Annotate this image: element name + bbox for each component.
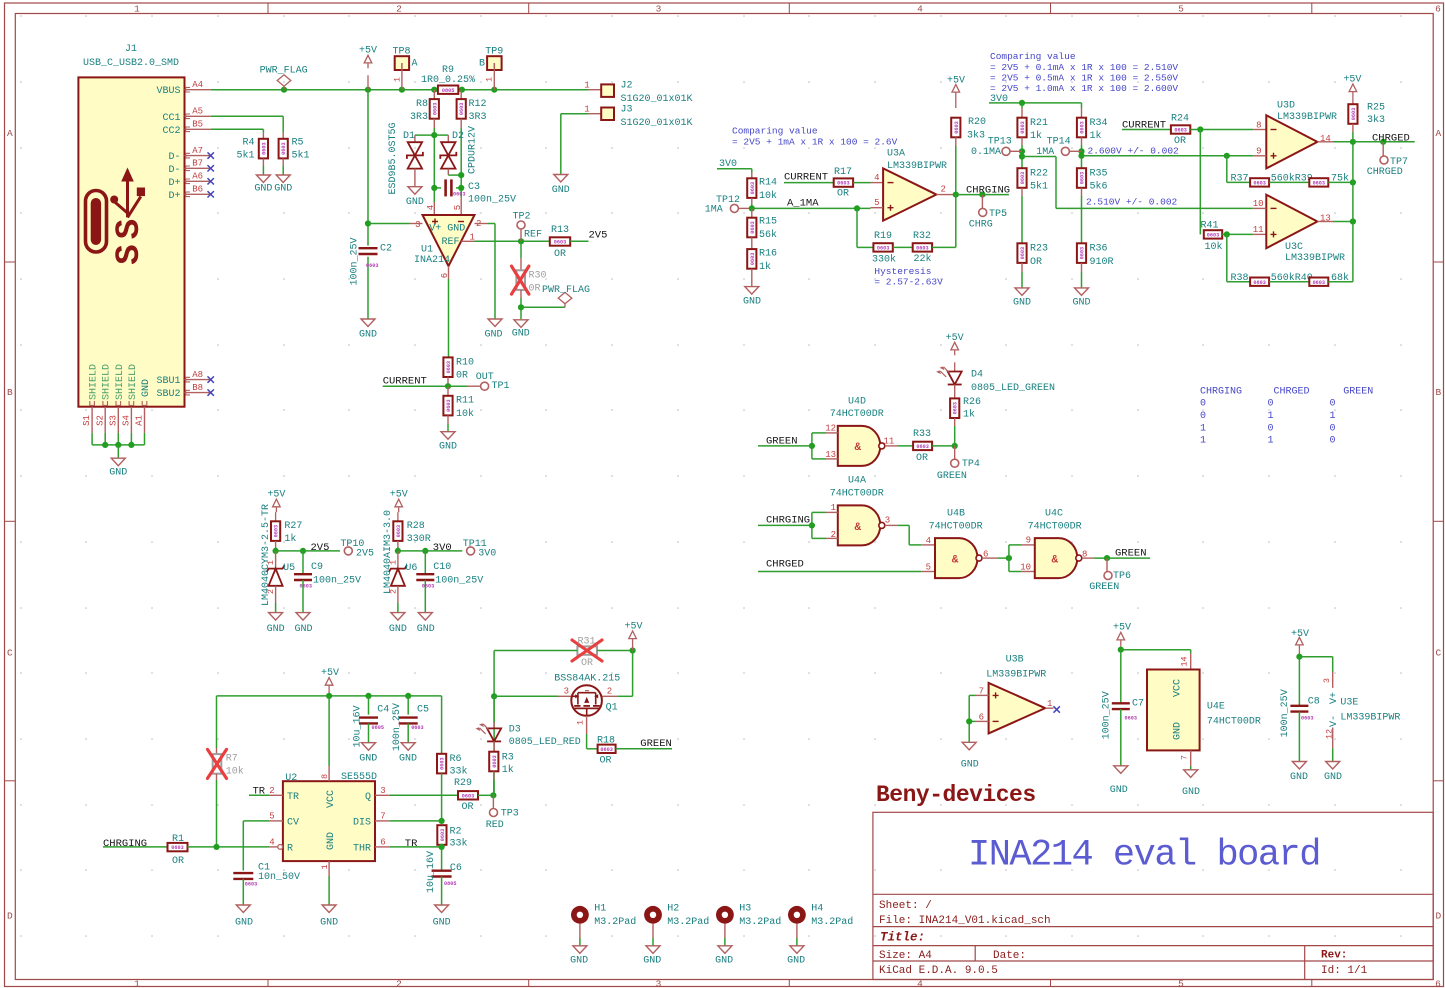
capacitor 100n [294, 551, 361, 635]
svg-text:1: 1 [134, 4, 140, 15]
svg-text:0R: 0R [456, 371, 468, 382]
shunt reference U5 [266, 551, 295, 635]
svg-text:14: 14 [1320, 134, 1331, 144]
resistor R8 [410, 90, 439, 128]
svg-text:R37: R37 [1230, 174, 1248, 185]
gate U4E 74HCT00DR power unit [1147, 653, 1261, 797]
svg-text:9: 9 [1026, 536, 1031, 546]
svg-text:12: 12 [825, 423, 836, 433]
resistor R4 [211, 129, 273, 194]
resistor R11 [439, 386, 474, 452]
svg-text:TP14: TP14 [1047, 137, 1071, 148]
NAND gate U4B 74HCT00DR [929, 509, 1012, 579]
svg-text:A5: A5 [192, 107, 203, 117]
svg-text:1: 1 [1200, 436, 1206, 447]
svg-text:D2: D2 [452, 131, 464, 142]
svg-text:0: 0 [1200, 411, 1206, 422]
wire VBUS net [211, 87, 589, 93]
ground [1114, 766, 1128, 774]
svg-text:100n_25V: 100n_25V [392, 703, 403, 751]
svg-text:U4E: U4E [1207, 702, 1225, 713]
net 3V0 rail [989, 94, 1082, 108]
test point TP4 GREEN [937, 446, 980, 482]
svg-text:GND: GND [1072, 297, 1090, 308]
svg-text:+5V: +5V [624, 621, 642, 632]
svg-text:33k: 33k [450, 837, 468, 849]
svg-text:GND: GND [320, 918, 338, 929]
svg-text:S: S [111, 244, 149, 264]
wire wired-AND output CHRGED [1350, 132, 1415, 281]
svg-text:R10: R10 [456, 357, 474, 368]
svg-text:CHRGING: CHRGING [966, 185, 1010, 197]
svg-text:C10: C10 [433, 562, 451, 573]
test point TP8 [392, 46, 417, 89]
svg-text:D3: D3 [509, 725, 521, 736]
svg-text:0603: 0603 [411, 725, 423, 731]
test point TP7 CHRGED [1367, 142, 1408, 178]
svg-text:M3.2Pad: M3.2Pad [739, 916, 781, 928]
svg-text:2: 2 [941, 185, 946, 195]
svg-text:1k: 1k [963, 408, 975, 420]
svg-text:0603: 0603 [440, 829, 446, 841]
resistor R6 [437, 696, 468, 824]
svg-text:GND: GND [1290, 772, 1308, 783]
svg-text:+5V: +5V [321, 668, 339, 679]
svg-text:GND: GND [433, 918, 451, 929]
resistor R18 [597, 735, 672, 766]
resistor R12 [457, 90, 487, 128]
wire GND pin1 [320, 876, 338, 929]
power +5V [1291, 629, 1309, 657]
svg-text:REF: REF [441, 237, 459, 248]
svg-text:LM339BIPWR: LM339BIPWR [887, 161, 947, 172]
svg-text:GND: GND [109, 468, 127, 479]
svg-text:4: 4 [917, 4, 923, 15]
svg-text:6: 6 [380, 837, 385, 847]
svg-text:A8: A8 [192, 370, 203, 380]
svg-text:GND: GND [743, 296, 761, 307]
svg-text:V+ GND: V+ GND [429, 224, 465, 235]
svg-text:Hysteresis: Hysteresis [874, 266, 931, 277]
svg-text:1k: 1k [1030, 130, 1042, 142]
svg-text:0603: 0603 [396, 525, 402, 537]
wire CHRGING net [953, 185, 1010, 198]
svg-text:5: 5 [874, 198, 879, 208]
resistor R35 [1077, 168, 1108, 243]
svg-text:OR: OR [916, 453, 928, 464]
svg-text:0: 0 [1330, 423, 1336, 434]
capacitor C6 [426, 847, 462, 929]
svg-text:OR: OR [837, 188, 849, 199]
svg-text:R3: R3 [502, 753, 514, 764]
svg-text:0603: 0603 [953, 402, 959, 414]
svg-text:1: 1 [1268, 411, 1274, 422]
svg-text:SHIELD: SHIELD [89, 364, 100, 400]
ground [514, 320, 528, 328]
svg-text:0603: 0603 [600, 747, 612, 753]
svg-text:0: 0 [1330, 436, 1336, 447]
svg-text:1: 1 [1200, 423, 1206, 434]
svg-text:GND: GND [326, 832, 337, 850]
wire TR input [249, 786, 269, 798]
no-connect [1054, 706, 1060, 712]
resistor R24 [1171, 114, 1266, 148]
wire to U3D pin9 [1082, 155, 1254, 157]
svg-text:0603: 0603 [1313, 181, 1325, 187]
wire A_1MA net [749, 198, 871, 212]
resistor R10 [443, 357, 474, 386]
wire Q output pin3 [390, 794, 458, 796]
wire +5V node to U4E VCC [1118, 647, 1191, 654]
svg-text:DIS: DIS [353, 817, 371, 828]
LED D3 0805_LED_RED [476, 696, 581, 751]
svg-text:TP8: TP8 [392, 46, 410, 57]
svg-text:10: 10 [1020, 563, 1031, 573]
wire R29 node up to R31 row [493, 651, 495, 796]
svg-text:+5V: +5V [1291, 629, 1309, 640]
LED D4 0805_LED_GREEN [936, 333, 1055, 398]
resistor R28 [393, 521, 430, 551]
power +5V [1113, 623, 1131, 650]
svg-text:8: 8 [1256, 121, 1261, 131]
svg-text:Q: Q [365, 792, 371, 803]
mounting hole H2 M3.2Pad [643, 904, 709, 967]
svg-text:+5V: +5V [267, 489, 285, 500]
svg-text:U3D: U3D [1277, 101, 1295, 112]
ground [718, 946, 732, 954]
svg-text:7: 7 [380, 811, 385, 821]
svg-text:GREEN: GREEN [1115, 547, 1147, 559]
svg-text:+5V: +5V [390, 489, 408, 500]
svg-text:B7: B7 [192, 159, 203, 169]
wire U4B out to U4C inputs [1009, 536, 1035, 573]
svg-text:D+: D+ [168, 191, 180, 202]
svg-text:R19: R19 [874, 231, 892, 242]
svg-text:TR: TR [405, 838, 418, 850]
svg-text:File: INA214_V01.kicad_sch: File: INA214_V01.kicad_sch [879, 915, 1051, 927]
svg-text:4: 4 [269, 837, 274, 847]
svg-text:VCC: VCC [1173, 679, 1184, 697]
svg-text:C6: C6 [450, 863, 462, 874]
resistor R33 [913, 429, 958, 464]
svg-text:TR: TR [287, 792, 299, 803]
svg-text:2: 2 [607, 686, 612, 696]
wire GREEN output net [1094, 547, 1150, 561]
svg-text:GND: GND [417, 624, 435, 635]
svg-text:= 2.57-2.63V: = 2.57-2.63V [874, 277, 943, 288]
ground [236, 905, 250, 913]
svg-text:R8: R8 [416, 99, 428, 110]
svg-text:Beny-devices: Beny-devices [876, 782, 1036, 808]
wire GREEN input [758, 435, 812, 447]
svg-text:GND: GND [787, 956, 805, 967]
svg-text:GND: GND [274, 183, 292, 194]
svg-text:LM339BIPWR: LM339BIPWR [1277, 112, 1337, 123]
svg-text:0R: 0R [529, 284, 541, 295]
svg-text:GND: GND [359, 330, 377, 341]
svg-text:0805_LED_RED: 0805_LED_RED [509, 737, 581, 748]
svg-text:R35: R35 [1090, 169, 1108, 180]
svg-text:5k1: 5k1 [292, 150, 310, 162]
svg-text:= 2V5 + 0.5mA x 1R x 100 = 2.5: = 2V5 + 0.5mA x 1R x 100 = 2.550V [990, 72, 1178, 83]
svg-text:GREEN: GREEN [937, 471, 967, 482]
svg-text:5k1: 5k1 [236, 150, 254, 162]
svg-text:GREEN: GREEN [640, 738, 672, 750]
svg-text:0603: 0603 [462, 793, 474, 799]
svg-text:M3.2Pad: M3.2Pad [667, 916, 709, 928]
svg-text:CHRGED: CHRGED [766, 559, 804, 571]
power +5V and resistor R20 [947, 76, 986, 195]
svg-text:A: A [412, 59, 418, 70]
svg-text:= 2V5 + 0.1mA x 1R x 100 = 2.5: = 2V5 + 0.1mA x 1R x 100 = 2.510V [990, 62, 1178, 73]
svg-text:1: 1 [485, 77, 495, 82]
svg-text:Size: A4: Size: A4 [879, 950, 932, 962]
svg-text:H3: H3 [739, 904, 751, 915]
svg-text:VCC: VCC [326, 790, 337, 808]
svg-text:B6: B6 [192, 185, 203, 195]
svg-text:1k: 1k [1090, 130, 1102, 142]
svg-text:3: 3 [380, 786, 385, 796]
svg-text:GND: GND [1013, 297, 1031, 308]
svg-text:0603: 0603 [750, 182, 756, 194]
svg-text:0805_LED_GREEN: 0805_LED_GREEN [971, 383, 1055, 394]
svg-text:5k1: 5k1 [1030, 181, 1048, 193]
svg-text:C: C [1435, 647, 1441, 658]
svg-text:OR: OR [599, 756, 611, 767]
svg-text:A: A [1435, 128, 1441, 139]
svg-text:U4A: U4A [848, 476, 866, 487]
svg-text:Rev:: Rev: [1321, 950, 1347, 962]
ground [361, 319, 375, 327]
connector J1 USB_C_USB2.0_SMD [78, 44, 214, 479]
wire shield bus to ground [91, 433, 93, 445]
svg-text:D+: D+ [168, 178, 180, 189]
svg-text:4: 4 [874, 173, 879, 183]
svg-text:+5V: +5V [1113, 623, 1131, 634]
svg-text:KiCad E.D.A. 9.0.5: KiCad E.D.A. 9.0.5 [879, 965, 998, 977]
svg-text:GND: GND [294, 624, 312, 635]
ground [1184, 770, 1198, 778]
svg-text:&: & [854, 522, 861, 534]
svg-text:100n_25V: 100n_25V [313, 575, 361, 586]
svg-text:5: 5 [926, 563, 931, 573]
wire R8 to C3 node [433, 128, 435, 202]
svg-text:33k: 33k [450, 766, 468, 778]
svg-text:PWR_FLAG: PWR_FLAG [260, 66, 308, 77]
svg-text:OR: OR [1174, 136, 1186, 147]
svg-text:CPDUR12V: CPDUR12V [468, 126, 479, 174]
svg-text:Date:: Date: [993, 950, 1026, 962]
svg-text:R7: R7 [226, 754, 238, 765]
svg-text:D: D [7, 910, 13, 921]
svg-text:S4: S4 [122, 415, 132, 426]
svg-text:22k: 22k [913, 253, 931, 265]
resistor R34 [1077, 108, 1108, 168]
svg-text:10k: 10k [456, 408, 474, 420]
svg-text:Title:: Title: [880, 930, 925, 944]
svg-text:GND: GND [1110, 785, 1128, 796]
svg-text:1: 1 [1047, 699, 1052, 709]
svg-text:R15: R15 [759, 217, 777, 228]
svg-text:R33: R33 [913, 429, 931, 440]
ground [573, 946, 587, 954]
svg-text:1: 1 [576, 720, 586, 725]
mounting hole H4 M3.2Pad [787, 904, 853, 967]
ground [435, 905, 449, 913]
svg-text:OR: OR [461, 802, 473, 813]
test point TP9 [479, 46, 503, 89]
svg-text:GND: GND [141, 379, 152, 397]
wire U4A out pin3 to U4B pin4 [885, 515, 935, 546]
svg-text:S: S [111, 219, 149, 239]
svg-text:0603: 0603 [422, 583, 434, 589]
svg-text:1MA: 1MA [705, 204, 723, 215]
svg-text:R21: R21 [1030, 118, 1048, 129]
svg-text:0805: 0805 [372, 725, 384, 731]
svg-text:V-: V- [1329, 715, 1340, 727]
svg-text:0: 0 [1268, 423, 1274, 434]
svg-text:GND: GND [254, 183, 272, 194]
capacitor C5 [392, 696, 429, 765]
svg-text:GND: GND [1173, 722, 1184, 740]
svg-text:= 2V5 + 1mA x 1R x 100 = 2.6V: = 2V5 + 1mA x 1R x 100 = 2.6V [732, 136, 898, 147]
capacitor C8 [1280, 654, 1320, 783]
svg-text:GND: GND [399, 754, 417, 765]
resistor R14 [747, 173, 777, 209]
svg-text:TP6: TP6 [1113, 571, 1131, 582]
svg-text:H1: H1 [594, 904, 606, 915]
svg-text:GND: GND [512, 328, 530, 339]
svg-text:PWR_FLAG: PWR_FLAG [542, 285, 590, 296]
power flag PWR_FLAG at R30 [512, 285, 590, 339]
svg-text:100n_25V: 100n_25V [435, 575, 483, 586]
svg-text:74HCT00DR: 74HCT00DR [1207, 717, 1261, 728]
ground [790, 946, 804, 954]
svg-text:TP1: TP1 [492, 381, 510, 392]
svg-text:100n_25V: 100n_25V [1101, 691, 1112, 739]
svg-text:0603: 0603 [1125, 716, 1137, 722]
svg-text:S3: S3 [108, 415, 118, 426]
svg-text:1: 1 [134, 979, 140, 988]
wire CHRGED input to U4B pin5 [758, 559, 935, 573]
svg-text:0603: 0603 [300, 583, 312, 589]
svg-text:B8: B8 [192, 383, 203, 393]
svg-text:S1G20_01x01K: S1G20_01x01K [621, 118, 693, 129]
wire gate node [491, 686, 571, 699]
svg-text:R6: R6 [450, 754, 462, 765]
svg-text:CC2: CC2 [162, 126, 180, 137]
svg-text:CURRENT: CURRENT [784, 171, 828, 183]
op-amp U3B LM339BIPWR spare [961, 655, 1060, 771]
svg-text:Q1: Q1 [606, 702, 618, 713]
svg-text:0603: 0603 [1020, 247, 1026, 259]
svg-text:0603: 0603 [750, 253, 756, 265]
svg-text:5: 5 [1178, 4, 1184, 15]
svg-text:3: 3 [564, 686, 569, 696]
note comparing value right [990, 51, 1178, 94]
ground [441, 432, 455, 440]
svg-text:10k: 10k [226, 765, 244, 777]
svg-text:11: 11 [1253, 225, 1264, 235]
svg-text:U5: U5 [283, 563, 295, 574]
svg-text:C3: C3 [468, 182, 480, 193]
svg-text:74HCT00DR: 74HCT00DR [830, 409, 884, 420]
wire R24 node down to R41 [1199, 130, 1201, 235]
svg-text:THR: THR [353, 843, 371, 854]
wire THR pin6 TR net [390, 838, 445, 850]
power flag PWR_FLAG [260, 66, 308, 90]
svg-text:3: 3 [415, 220, 420, 230]
svg-text:0: 0 [1200, 399, 1206, 410]
svg-text:0603: 0603 [281, 142, 287, 154]
svg-text:0603: 0603 [554, 240, 566, 246]
svg-text:OR: OR [172, 856, 184, 867]
resistor R27 [271, 521, 302, 551]
test point TP12 1MA [705, 195, 752, 215]
svg-text:TP5: TP5 [989, 209, 1007, 220]
NAND gate U4C 74HCT00DR [1028, 509, 1095, 579]
test point TP6 GREEN [1089, 558, 1131, 593]
svg-text:S2: S2 [95, 415, 105, 426]
TVS diode D2 CPDUR12V [434, 126, 478, 178]
capacitor C3 [431, 179, 516, 205]
svg-text:TP3: TP3 [501, 809, 519, 820]
test point TP10 2V5 [340, 539, 374, 559]
svg-text:0805: 0805 [442, 88, 454, 94]
svg-text:R1: R1 [172, 834, 184, 845]
mounting hole H1 M3.2Pad [570, 904, 636, 967]
svg-text:1k: 1k [502, 764, 514, 776]
svg-text:0603: 0603 [274, 525, 280, 537]
feedback R38 R40 [1227, 234, 1353, 286]
op-amp U3A LM339BIPWR [871, 149, 956, 221]
svg-text:1: 1 [392, 77, 402, 82]
svg-text:3k3: 3k3 [1367, 114, 1385, 126]
svg-text:10u_16V: 10u_16V [426, 851, 437, 893]
svg-text:SE555D: SE555D [341, 772, 377, 783]
svg-text:U4B: U4B [947, 509, 965, 520]
svg-text:R25: R25 [1367, 103, 1385, 114]
wire REF output pin1 [461, 238, 549, 244]
capacitor C4 [353, 696, 390, 765]
svg-text:R27: R27 [284, 521, 302, 532]
ground [418, 613, 432, 621]
svg-text:56k: 56k [759, 229, 777, 241]
svg-text:Sheet: /: Sheet: / [879, 900, 932, 912]
svg-text:S1: S1 [82, 415, 92, 426]
svg-text:10u_16V: 10u_16V [353, 705, 364, 747]
svg-text:0603: 0603 [432, 103, 438, 115]
svg-text:0603: 0603 [1174, 128, 1186, 134]
wire U1 pin3 supply [368, 223, 423, 225]
svg-text:GND: GND [439, 441, 457, 452]
svg-text:A7: A7 [192, 146, 203, 156]
USB SS logo [86, 191, 107, 253]
ground [401, 743, 415, 751]
svg-text:J1: J1 [125, 44, 137, 55]
svg-text:2.510V +/- 0.002: 2.510V +/- 0.002 [1086, 196, 1178, 207]
svg-text:A4: A4 [192, 80, 203, 90]
svg-text:TP4: TP4 [962, 459, 980, 470]
svg-text:R2: R2 [450, 826, 462, 837]
svg-text:B: B [7, 387, 13, 398]
svg-text:R12: R12 [469, 99, 487, 110]
svg-text:560kR40: 560kR40 [1271, 272, 1313, 284]
svg-text:&: & [1051, 555, 1058, 567]
svg-text:R26: R26 [963, 397, 981, 408]
test point TP11 3V0 [463, 539, 497, 559]
svg-text:U2: U2 [285, 773, 297, 784]
